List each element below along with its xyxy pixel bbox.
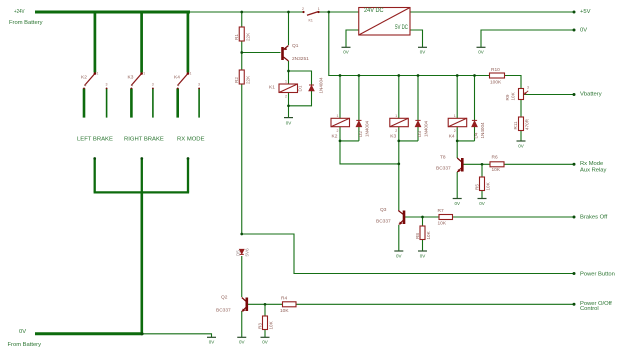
svg-text:Brakes Off: Brakes Off [580,214,608,220]
svg-text:0V: 0V [454,201,460,206]
svg-text:R11: R11 [513,121,518,130]
svg-text:R7: R7 [438,208,444,214]
svg-text:K1: K1 [309,19,313,23]
svg-text:D2: D2 [358,131,363,137]
svg-text:R9: R9 [505,94,510,100]
svg-text:470R: 470R [525,118,530,130]
svg-text:T8: T8 [440,155,446,161]
svg-text:RX MODE: RX MODE [177,137,205,143]
svg-text:+24V: +24V [14,9,25,15]
svg-text:1N4004: 1N4004 [424,120,429,137]
svg-text:Q2: Q2 [221,295,228,301]
svg-text:R6: R6 [492,155,498,161]
svg-text:D4: D4 [474,132,479,138]
svg-text:BC337: BC337 [436,166,451,172]
svg-text:0V: 0V [343,50,349,55]
svg-text:Vbattery: Vbattery [580,91,602,97]
svg-text:From Battery: From Battery [8,342,42,348]
svg-text:+5V: +5V [580,9,591,15]
svg-text:0V: 0V [518,144,524,149]
svg-text:10K: 10K [511,91,516,100]
svg-text:0V: 0V [262,340,268,345]
svg-text:1N4004: 1N4004 [480,122,485,139]
svg-text:Power Button: Power Button [580,271,615,277]
svg-text:Aux Relay: Aux Relay [580,167,607,173]
svg-text:R8: R8 [415,233,420,239]
svg-text:10K: 10K [426,230,431,239]
svg-text:1: 1 [337,114,339,118]
svg-text:1N4004: 1N4004 [365,120,370,137]
svg-text:0V: 0V [19,329,26,335]
svg-text:22K: 22K [246,32,251,41]
svg-text:0V: 0V [209,340,215,345]
svg-text:1: 1 [285,80,287,84]
svg-text:Q1: Q1 [292,43,299,49]
svg-text:1: 1 [190,72,192,76]
svg-text:R1: R1 [234,34,239,40]
svg-text:3: 3 [106,83,108,87]
svg-text:BC337: BC337 [216,308,231,314]
svg-text:D1: D1 [298,85,303,91]
svg-text:K4: K4 [449,134,455,140]
svg-text:R10: R10 [491,67,500,73]
svg-text:K2: K2 [332,134,338,140]
svg-text:2: 2 [337,129,339,133]
svg-text:3: 3 [527,86,529,90]
svg-text:1: 1 [395,114,397,118]
svg-text:0V: 0V [239,340,245,345]
svg-text:D5: D5 [236,250,241,256]
svg-text:RIGHT BRAKE: RIGHT BRAKE [124,137,164,143]
svg-text:K1: K1 [269,85,275,91]
svg-text:Control: Control [580,306,599,312]
svg-text:5V DC: 5V DC [395,24,408,31]
svg-text:1N4004: 1N4004 [319,77,324,94]
svg-text:R5: R5 [475,184,480,190]
svg-text:24V DC: 24V DC [364,7,384,14]
svg-text:BC337: BC337 [376,219,391,225]
svg-text:2: 2 [395,129,397,133]
svg-text:0V: 0V [396,253,402,258]
svg-text:3: 3 [198,83,200,87]
svg-text:0V: 0V [580,27,587,33]
svg-text:10K: 10K [486,181,491,190]
svg-text:100K: 100K [490,80,502,86]
svg-text:3: 3 [152,83,154,87]
svg-text:2N3251: 2N3251 [292,56,309,62]
svg-text:K4: K4 [174,75,180,81]
svg-text:0V: 0V [479,201,485,206]
svg-text:0V: 0V [286,120,292,125]
svg-text:1: 1 [318,7,320,11]
svg-text:4: 4 [85,84,87,88]
svg-text:LEFT BRAKE: LEFT BRAKE [77,137,113,143]
svg-text:1: 1 [143,72,145,76]
svg-text:0V: 0V [420,253,426,258]
svg-text:From Battery: From Battery [9,20,43,26]
svg-text:R2: R2 [234,77,239,83]
svg-text:0V: 0V [478,50,484,55]
svg-text:10K: 10K [438,221,447,227]
svg-text:10K: 10K [269,320,274,329]
svg-text:4: 4 [178,84,180,88]
svg-text:10K: 10K [492,167,501,173]
svg-text:2: 2 [285,95,287,99]
svg-text:K3: K3 [390,134,396,140]
svg-text:R3: R3 [258,323,263,329]
svg-text:10K: 10K [280,308,289,314]
svg-text:1: 1 [454,114,456,118]
svg-text:Rx Mode: Rx Mode [580,161,603,167]
svg-text:Q3: Q3 [380,207,387,213]
svg-text:1: 1 [97,72,99,76]
svg-text:K3: K3 [128,75,134,81]
svg-text:4: 4 [131,84,133,88]
svg-text:22K: 22K [246,75,251,84]
svg-text:D3: D3 [417,131,422,137]
svg-text:R4: R4 [281,296,287,302]
svg-text:2: 2 [302,7,304,11]
svg-text:2: 2 [454,129,456,133]
svg-text:0V: 0V [420,50,426,55]
svg-text:5V6: 5V6 [245,248,250,257]
svg-text:K2: K2 [81,75,87,81]
